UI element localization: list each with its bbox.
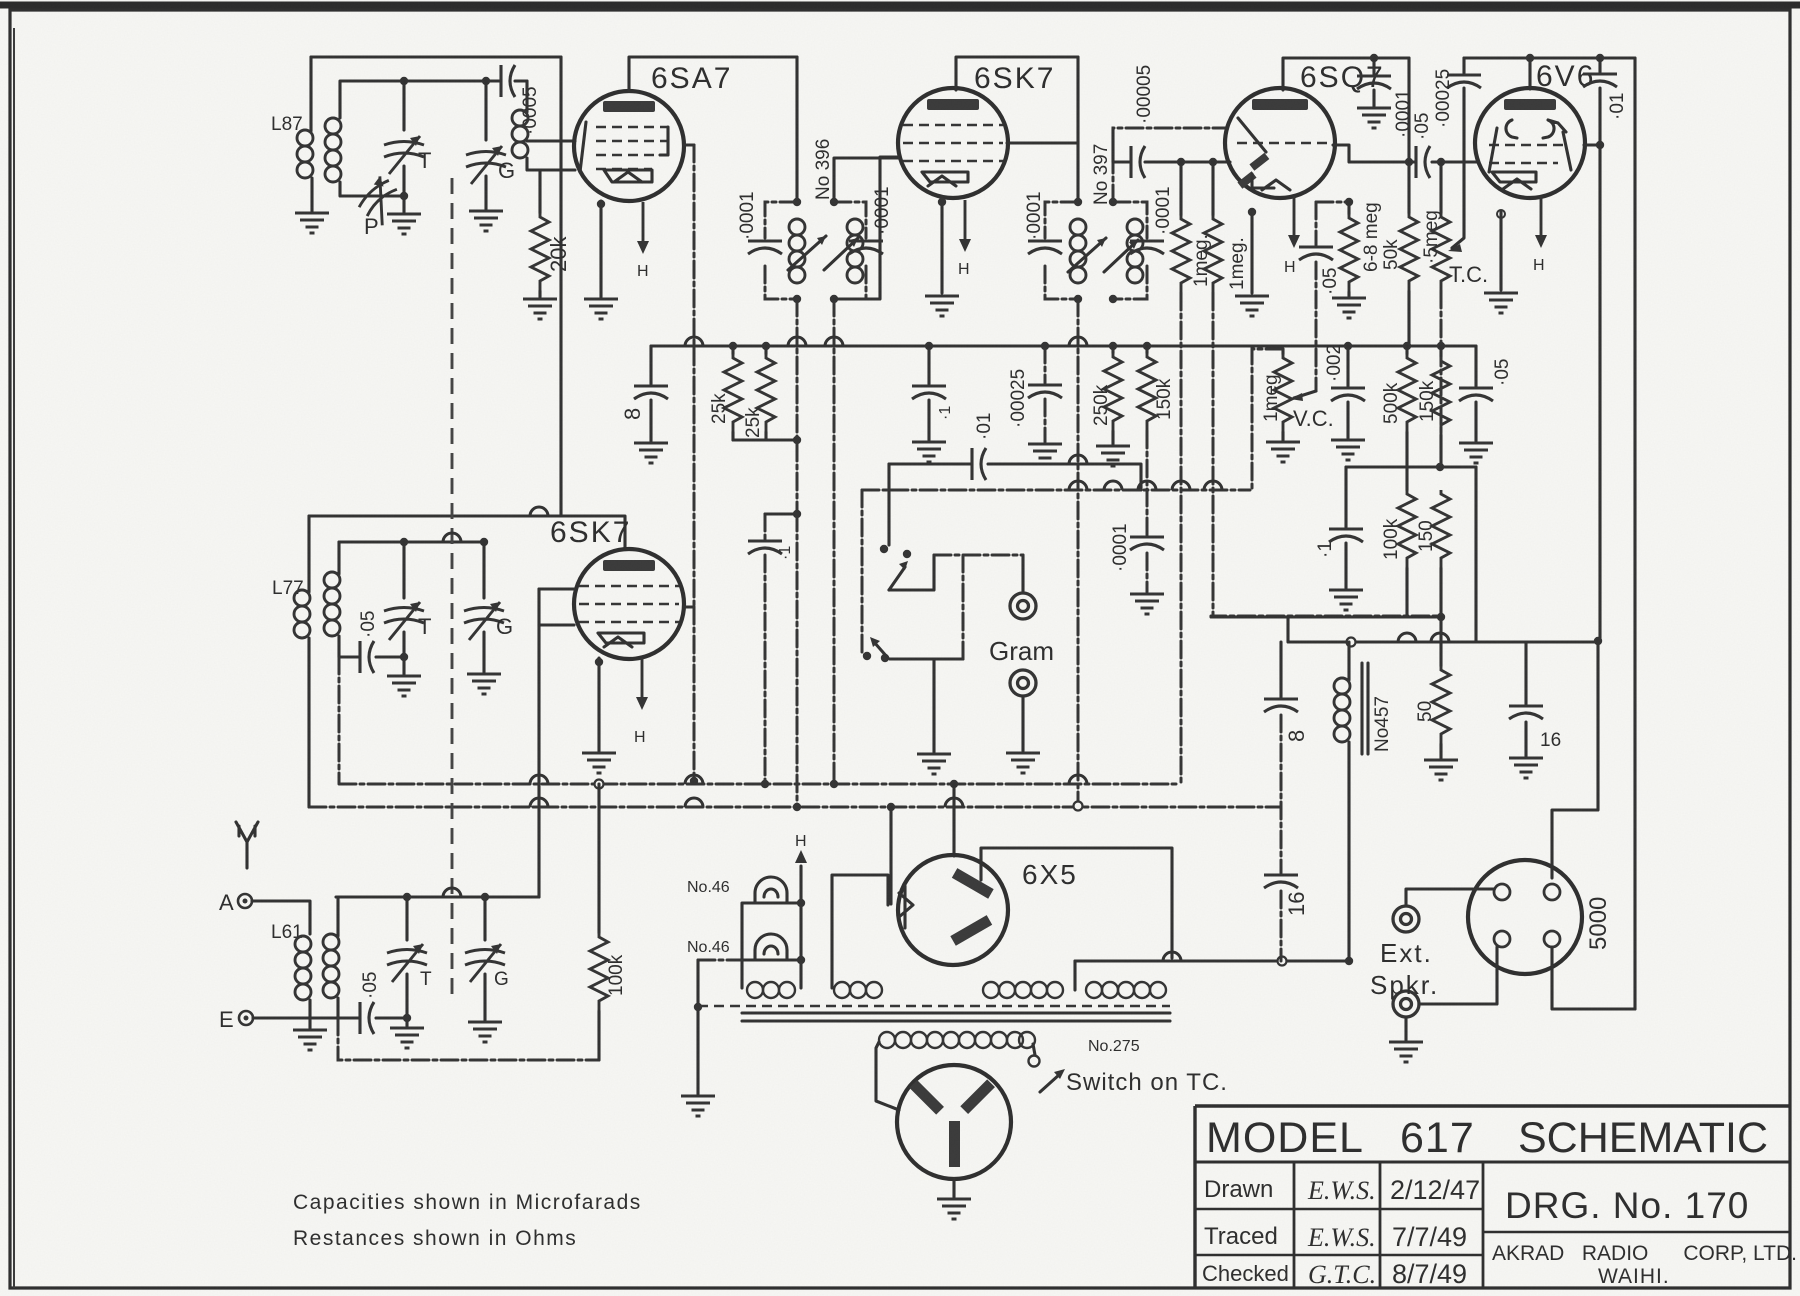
wire 6SK7 plate xyxy=(1007,141,1078,144)
capacitor .01 xyxy=(972,448,986,480)
wire bus AVC y346 xyxy=(651,344,1476,347)
wire 6SA7 cathode xyxy=(599,201,602,297)
wire x539 down to ant bus xyxy=(537,589,540,897)
capacitor .1 AF xyxy=(1344,467,1347,588)
heater arrow H up xyxy=(795,850,807,863)
resistor 500k xyxy=(1405,346,1408,354)
node dot 500k top xyxy=(1403,342,1411,350)
wire 6SA7 top cap xyxy=(629,57,797,91)
wire diode line with .00005 xyxy=(1113,160,1230,163)
node dot AVC 2 xyxy=(1209,158,1217,166)
wire lamp rail right xyxy=(799,866,802,988)
wire heater dashed bus xyxy=(698,1005,1170,1008)
wire ant return bus xyxy=(338,1018,599,1060)
resistor 250k xyxy=(1109,342,1117,350)
ground xyxy=(925,296,959,316)
capacitor 8 screen bypass xyxy=(649,346,652,441)
ground xyxy=(937,1199,971,1219)
ground xyxy=(295,213,329,233)
node dot IF397 primary bottom xyxy=(1074,295,1082,303)
node dot G top xyxy=(482,77,490,85)
jack ext spkr 2 xyxy=(1393,991,1419,1017)
jack Gram earth xyxy=(1010,670,1036,696)
node dot IF396 primary top xyxy=(793,198,801,206)
resistor 150k #2 xyxy=(1437,342,1445,350)
wire 6V6 cathode xyxy=(1499,212,1502,290)
wire 6SK7b grid left xyxy=(539,587,574,590)
tube 6V6 internals xyxy=(1506,120,1566,138)
wire 6SK7b top B+ xyxy=(309,516,625,549)
plug pins xyxy=(909,1080,944,1115)
core transformer 275 xyxy=(742,1013,1170,1021)
wire switch feed xyxy=(887,464,890,545)
resistor 100k xyxy=(1398,490,1416,568)
wire x797 to ground bus xyxy=(796,514,799,807)
wire IF397 secondary top to diode xyxy=(1113,128,1226,202)
tube 6SK7 envelope xyxy=(898,88,1008,198)
wire .01 line xyxy=(889,464,1141,490)
capacitor .0001 IF397 primary trimmer xyxy=(1045,202,1078,299)
socket pins xyxy=(1494,884,1510,900)
wire L87 primary bottom xyxy=(310,178,313,211)
ground xyxy=(681,1096,715,1116)
resistor .5meg tone xyxy=(1439,162,1442,213)
resistor 25k #2 xyxy=(764,346,767,354)
wire 25k bottoms to B+ xyxy=(733,438,797,441)
variable capacitor G ant xyxy=(483,897,486,940)
coil L87 primary xyxy=(297,130,313,178)
ground xyxy=(1096,446,1130,466)
capacitor .05 L77 xyxy=(339,655,404,658)
wire 6SK7 grid return xyxy=(834,157,898,299)
ground xyxy=(917,754,951,774)
wire .05 branch vertical xyxy=(1407,58,1410,162)
wire y514 link xyxy=(765,512,797,515)
wire 6SK7b cathode xyxy=(597,658,600,751)
wire bus B+ y642 xyxy=(1288,618,1598,642)
ground xyxy=(1509,758,1543,778)
jack ext spkr 1 xyxy=(1393,906,1419,932)
wire B+ rail right xyxy=(1633,58,1636,1009)
wire T branch xyxy=(402,81,405,130)
coil rectifier filament winding xyxy=(834,982,850,998)
wire L87 secondary bottom xyxy=(340,182,404,196)
wire T bottom xyxy=(402,166,405,212)
wire hop bumps xyxy=(443,337,1449,961)
core No457 xyxy=(1362,663,1368,754)
ground xyxy=(912,442,946,462)
ground xyxy=(523,299,557,319)
ground xyxy=(634,443,668,463)
capacitor .05 diode filter xyxy=(1315,202,1318,391)
wire B+ drop to IF396 xyxy=(795,57,798,202)
node dot IF396 secondary bottom xyxy=(830,295,838,303)
resistor 6-8 meg xyxy=(1347,202,1350,214)
ground xyxy=(1006,753,1040,773)
heater arrow H xyxy=(637,202,649,254)
ground xyxy=(1266,442,1300,462)
ground xyxy=(1389,1042,1423,1062)
heater arrow H xyxy=(1535,196,1547,248)
coil HT winding a xyxy=(983,982,999,998)
wire jack2 ground xyxy=(1404,1017,1407,1040)
ground xyxy=(390,1028,424,1048)
node dot IF396 primary bottom xyxy=(793,295,801,303)
capacitor .00005 xyxy=(1131,146,1145,178)
wire bus B y467 xyxy=(1346,465,1476,468)
node dot 25k 2 xyxy=(762,342,770,350)
coil L61 secondary xyxy=(336,897,339,936)
wire 6SQ7 plate out xyxy=(1333,145,1409,162)
wire 6V6 B+ top xyxy=(1464,56,1635,59)
wire bus AVC y784 xyxy=(339,657,1180,784)
capacitor .00025 xyxy=(1041,342,1049,350)
lamp No46 #1 xyxy=(755,877,787,903)
variable capacitor G band2 xyxy=(482,542,485,598)
wire 6SK7 cathode xyxy=(940,197,943,293)
tube 6SQ7 internals: diode plates, grid, triode xyxy=(1237,142,1332,145)
ground xyxy=(1028,444,1062,464)
capacitor .0001 IF396 secondary trimmer xyxy=(834,202,866,299)
antenna symbol xyxy=(236,822,258,868)
ground xyxy=(1459,443,1493,463)
switch arm lower xyxy=(874,642,888,658)
ground xyxy=(469,211,503,231)
wire HT bus y961 xyxy=(1075,959,1349,962)
tube 6SK7b envelope xyxy=(574,549,684,659)
node dot T top xyxy=(400,77,408,85)
wire plate down to output xyxy=(1598,145,1601,641)
capacitor .05 output grid xyxy=(1474,346,1477,441)
resistor 1meg AVC #2 xyxy=(1211,162,1214,215)
ground xyxy=(387,676,421,696)
node dot IF397 secondary bottom xyxy=(1109,295,1117,303)
node dot grid junction xyxy=(1437,158,1445,166)
coil mains primary xyxy=(879,1032,895,1048)
wire speaker field return xyxy=(1552,947,1635,1009)
wire .05 to B+ bus xyxy=(1474,467,1477,642)
wire IF396 primary line down xyxy=(796,299,799,514)
ground xyxy=(1484,293,1518,313)
capacitor .00025 xyxy=(1462,58,1465,73)
node dot T bottom xyxy=(400,192,408,200)
ground xyxy=(1331,440,1365,460)
coil L77 secondary xyxy=(337,542,340,574)
wire B+ drop to IF397 xyxy=(1076,57,1079,202)
switch arm upper xyxy=(889,567,905,590)
resistor 20k xyxy=(538,170,541,213)
wire oscillator coil branch xyxy=(525,81,528,112)
wire 6SK7b grid wire xyxy=(339,540,485,543)
ground xyxy=(308,1018,311,1028)
coil HT winding b xyxy=(1086,982,1102,998)
tube 6X5 envelope xyxy=(898,855,1008,965)
wire L87 primary top xyxy=(309,57,312,131)
capacitor 16 filter xyxy=(1264,875,1298,888)
wire 6V6 plate xyxy=(1584,143,1600,146)
capacitor .01 xyxy=(1598,58,1601,145)
wire 6SK7b screen left xyxy=(539,623,574,626)
wire jack2 to pin xyxy=(1419,947,1497,1004)
switch contact dots xyxy=(880,545,888,553)
node dot 6-8 meg top xyxy=(1345,198,1353,206)
wire 6SK7b plate right xyxy=(684,605,694,608)
capacitor .1 IF cathode xyxy=(764,514,767,784)
heater arrow H xyxy=(1288,196,1300,248)
coil L77 primary xyxy=(307,516,310,592)
wire switch wiring xyxy=(889,555,963,659)
terminal A xyxy=(238,894,252,908)
capacitor .002 tone xyxy=(1344,342,1352,350)
wire 6SA7 plate right xyxy=(684,143,694,146)
coil pilot winding xyxy=(747,982,763,998)
wire osc coil to tube grid xyxy=(527,141,575,170)
wire bus AF y490 xyxy=(862,489,1250,492)
wire bus gnd y807 xyxy=(309,806,1281,809)
wire HT centre tap xyxy=(1073,961,1076,990)
resistor 25k #1 xyxy=(731,346,734,354)
ground xyxy=(1332,298,1366,318)
coil L87 secondary xyxy=(325,118,341,182)
coil IF396 secondary xyxy=(847,219,863,283)
wire gang link dashed xyxy=(451,178,454,996)
node dot plate cap .01 xyxy=(1596,54,1604,62)
node dot .0001 tap xyxy=(1370,54,1378,62)
ground xyxy=(468,1022,502,1042)
capacitor .0001 IF396 primary trimmer xyxy=(765,202,797,299)
wire A to L61 xyxy=(252,901,310,934)
heater arrow H xyxy=(959,200,971,252)
wire heater return xyxy=(698,959,742,962)
variable capacitor P padder xyxy=(353,174,408,229)
wire screen stem xyxy=(1528,58,1531,89)
wire oscillator vertical x561 xyxy=(559,57,562,516)
wire ant grid bus y897 xyxy=(336,895,539,898)
wire G branch xyxy=(484,81,487,140)
wire AVC x862 xyxy=(862,490,867,656)
ground xyxy=(582,753,616,773)
ground xyxy=(1329,590,1363,610)
jack Gram hot xyxy=(1021,555,1024,593)
arrow switch on TC xyxy=(1040,1074,1060,1092)
border frame xyxy=(0,2,1800,9)
capacitor .0005 xyxy=(501,65,515,97)
coil IF397 secondary xyxy=(1127,219,1143,283)
wire E to coil xyxy=(253,1016,338,1019)
transformer No457 output xyxy=(1347,642,1350,680)
wire 6SQ7 top cap xyxy=(1283,58,1409,90)
lamp No46 #2 xyxy=(755,934,787,960)
wire diode load dashed xyxy=(1316,201,1349,204)
capacitor .0001 xyxy=(1130,537,1164,550)
coil IF397 primary xyxy=(1070,219,1086,283)
wire IF396 secondary to 6SK7 grid xyxy=(834,158,898,202)
node dot IF397 primary top xyxy=(1074,198,1082,206)
wire jack1 to pin xyxy=(1406,889,1494,906)
wire osc grid top xyxy=(340,81,527,118)
capacitor .0001 xyxy=(1372,58,1375,106)
node dot xyxy=(1405,158,1413,166)
arrow V.C. wiper xyxy=(1294,391,1316,398)
arrow IF396 slugs xyxy=(788,236,858,270)
capacitor .1 screen xyxy=(925,342,933,350)
wire plate to speaker plug xyxy=(1552,641,1598,878)
coil L61 primary xyxy=(295,936,311,1000)
arrow tone control xyxy=(1452,88,1464,248)
ground xyxy=(1357,108,1391,128)
resistor 50 xyxy=(1439,617,1442,666)
capacitor 8 filter xyxy=(1279,642,1282,697)
plug circle xyxy=(897,1065,1011,1179)
ground xyxy=(387,214,421,234)
tube 6V6 envelope xyxy=(1475,88,1585,198)
wire VC top to AF bus xyxy=(1252,349,1283,490)
terminal E xyxy=(239,1011,253,1025)
wire 150k down xyxy=(1146,431,1149,535)
wire top B+ left xyxy=(311,55,561,58)
capacitor .05 coupling xyxy=(1409,160,1477,163)
node dot AVC 1 xyxy=(1177,158,1185,166)
tube 6X5 internals xyxy=(899,886,913,928)
variable capacitor T (osc tuning) xyxy=(384,136,424,174)
capacitor .0001 IF397 secondary trimmer xyxy=(1113,202,1147,299)
arrow IF397 slugs xyxy=(1068,238,1138,272)
tube 6SQ7 envelope xyxy=(1225,88,1335,198)
node dot 25k 1 xyxy=(729,342,737,350)
wire y617 bias line xyxy=(1211,616,1441,617)
ground xyxy=(1235,296,1269,316)
heater arrow H xyxy=(636,658,648,710)
wire 6SK7 top cap xyxy=(956,57,1078,90)
coil IF396 primary xyxy=(789,219,805,283)
tube 6SA7 envelope xyxy=(574,91,684,201)
capacitor .05 ant xyxy=(338,1016,407,1019)
ground xyxy=(1130,594,1164,614)
ground xyxy=(1424,760,1458,780)
capacitor 16 #2 xyxy=(1524,642,1527,704)
tube 6SA7 internal grids xyxy=(596,127,668,169)
resistor 50k xyxy=(1400,213,1418,291)
wire HT feeds xyxy=(891,784,954,904)
wire G bottom xyxy=(484,176,487,209)
variable capacitor T ant xyxy=(405,897,408,940)
tube 6SK7 internal grids xyxy=(903,125,1003,161)
resistor 100k AVC ant xyxy=(597,784,600,933)
terminal primary right xyxy=(1033,1044,1035,1055)
ground xyxy=(467,674,501,694)
tube 6SK7b internal grids xyxy=(579,586,679,622)
wire mains primary left xyxy=(876,1042,899,1110)
resistor 150k xyxy=(1143,342,1151,350)
wire plug earth xyxy=(952,1179,955,1197)
title block frame xyxy=(1195,1106,1790,1288)
resistor 1meg volume control xyxy=(1281,349,1284,354)
wire screen line end xyxy=(693,607,696,781)
resistor 1meg AVC #1 xyxy=(1179,162,1182,215)
wire IF397 primary line down xyxy=(1077,299,1080,806)
wire switch lower to ground xyxy=(932,659,935,752)
ground xyxy=(584,299,618,319)
variable capacitor T band2 xyxy=(402,542,405,598)
wire lamp rail left xyxy=(742,903,801,988)
coil oscillator grid xyxy=(512,110,528,158)
node dot bias xyxy=(1437,613,1445,621)
rect 6X5 box xyxy=(981,848,1172,958)
wire screen dropper x694 xyxy=(693,145,696,607)
resistor 150 bias xyxy=(1432,490,1450,568)
wire 6SQ7 cathode xyxy=(1250,210,1253,293)
wire IF396 secondary line down xyxy=(833,299,836,784)
variable capacitor G (osc) xyxy=(466,146,506,184)
